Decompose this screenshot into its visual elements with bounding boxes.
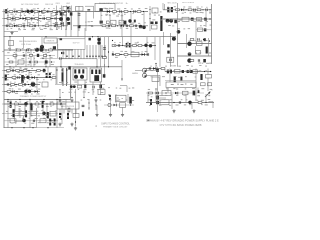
resistor R25 [188,9,192,11]
block degauss [95,3,115,11]
junction [45,66,46,67]
capacitor C9 [55,17,57,20]
wire [209,101,214,103]
value labels [9,22,63,24]
junction [112,53,113,54]
resistor R9 [26,18,30,20]
junction [43,101,44,102]
wire [197,88,199,94]
value labels [177,28,190,29]
diode D9 [61,52,64,55]
value labels [11,115,54,116]
wire [100,12,102,26]
junction [59,97,60,98]
capacitor C837 [167,44,169,47]
capacitor C42 [49,73,51,78]
junction [20,70,21,71]
transistor Q1 [26,10,29,13]
value labels [151,95,157,98]
block d3 [10,119,16,123]
capacitor C853 [200,74,202,80]
block T801 primary [152,8,158,13]
wire [3,9,5,128]
value labels [9,101,64,102]
wire [36,127,64,129]
value labels [102,22,146,24]
capacitor C13 [54,25,56,28]
value labels [188,52,211,53]
wire [41,37,43,47]
wire [167,88,169,94]
capacitor C880 [129,97,132,104]
junction [88,102,89,103]
value labels [6,64,54,65]
capacitor C2 [14,10,16,13]
capacitor C48 [149,67,151,70]
junction [150,9,151,10]
junction [42,25,43,26]
wire arrow [205,92,210,97]
block reg2 [167,57,174,62]
diode D7 [121,25,124,28]
capacitor C30 [59,57,61,60]
resistor R28 [49,49,53,51]
value labels [85,25,93,27]
wire [4,66,123,68]
wire [104,37,106,67]
value labels [149,99,211,101]
wire [55,67,57,84]
wire [121,12,123,37]
wire [46,104,48,118]
wire [70,67,72,100]
block m2 [208,83,212,86]
capacitor C25 [193,9,195,12]
transistor Q28 [189,70,192,73]
block ml1 [18,60,24,64]
capacitor C816 [155,22,158,25]
resistor R45 [52,77,56,79]
wire [49,56,51,67]
capacitor C15 [55,22,58,24]
capacitor C24 [171,7,173,12]
block d5 [73,114,79,118]
capacitor C851 [182,70,184,73]
wire [75,89,77,126]
wire [100,37,102,67]
junction [19,99,20,100]
wire [4,91,40,93]
wire [178,55,212,57]
junction [11,127,12,128]
wire [93,6,95,18]
wire [165,71,212,73]
resistor R11 [46,18,50,20]
wire [61,67,63,84]
block b3 [120,103,126,108]
value labels [147,95,210,96]
wire [4,49,73,51]
transistor Q17 [172,37,176,41]
wire [42,108,44,116]
capacitor C3 [47,10,49,13]
diode D13 [35,90,38,93]
capacitor C56 [25,110,27,117]
diode D3 [23,17,26,20]
wire [100,82,102,95]
wire [146,68,165,70]
wire [155,63,157,70]
wire [88,100,90,110]
wire [85,12,87,32]
capacitor C854 [174,76,176,82]
junction [30,49,31,50]
junction [204,71,205,72]
wire [169,69,171,83]
wire [149,6,151,31]
junction [50,25,51,26]
wire [4,55,55,57]
wire [89,38,91,41]
value labels [198,63,211,64]
resistor R48 [7,91,11,93]
block d4 [40,119,46,123]
block bl2 [15,116,24,121]
wire [106,21,109,24]
junction pins [66,56,105,57]
wire [78,6,80,31]
resistor R29 [13,55,17,57]
capacitor C881 [156,96,159,100]
resistor R40 [7,70,11,72]
resistor R17 [63,13,66,15]
resistor R51 [198,102,202,104]
svg-text:COIL 3.9uH: COIL 3.9uH [21,44,32,46]
capacitor C839 [204,38,206,41]
junction [210,71,211,72]
resistor R3 [34,11,38,13]
transistor Q15 [144,44,147,47]
transistor Q8 [169,19,173,23]
wire [18,108,20,116]
wire [36,108,38,128]
svg-text:S801 2A: S801 2A [45,3,53,6]
svg-text:AC 220-240V 50HZ: AC 220-240V 50HZ [21,3,39,6]
resistor R52 [15,103,19,105]
wire [191,103,193,110]
wire [56,100,58,128]
resistor R14 [29,25,33,27]
junction [92,36,93,37]
block r51 [206,75,212,79]
wire pins [60,109,76,114]
capacitor C27 [26,49,28,52]
wire [62,12,64,26]
junction [7,99,8,100]
diode D810 [100,21,103,24]
capacitor C820 [53,46,56,49]
resistor R57 [190,60,194,62]
value labels [167,6,207,7]
capacitor C45 [12,90,14,93]
junction [56,69,57,70]
diode D17 [175,92,178,95]
junction [97,36,98,37]
wire [104,64,106,78]
capacitor C55 [13,109,15,117]
wire [122,108,124,114]
value labels [59,81,101,83]
wire [57,44,59,58]
wire [56,6,58,31]
junction [66,69,67,70]
junction [45,49,46,50]
value labels [7,57,52,59]
capacitor C50 [179,101,181,104]
value labels [115,56,136,57]
svg-text:L802: L802 [66,3,70,5]
wire [71,6,73,31]
wire [4,11,73,13]
resistor R24 [176,9,180,11]
capacitor C14 [55,12,58,14]
transistor Q33 [128,19,131,22]
capacitor C32 [118,44,120,47]
wire [24,108,26,116]
junction [27,25,28,26]
capacitor C872 [82,112,84,117]
wire [19,108,21,118]
resistor R21 [102,25,106,27]
capacitor C847 [43,69,46,72]
wire [135,69,142,71]
svg-text:REMOTE: REMOTE [47,40,55,42]
capacitor C19 [133,10,135,13]
diode D11 [22,76,25,79]
resistor R36 [133,45,137,47]
capacitor C58 [49,119,51,126]
capacitor C33 [126,43,128,47]
capacitor C12 [34,25,36,28]
block v2 [162,91,171,96]
wire [130,12,132,37]
resistor R18 [113,11,117,13]
junction [122,45,123,46]
svg-text:SEC 140V: SEC 140V [167,3,177,5]
wire [65,12,67,37]
capacitor C836 [134,20,136,23]
wire [36,78,38,92]
winding blobs [74,75,84,79]
capacitor C855 [180,77,182,81]
wire [78,25,81,28]
block dr2 [119,20,124,25]
value labels [154,14,160,17]
svg-text:TDA 4605: TDA 4605 [74,63,84,66]
capacitor C39 [5,75,7,81]
junction [15,84,16,85]
junction [108,66,109,67]
capacitor C838 [167,51,169,54]
value labels [9,67,33,68]
wire [207,78,209,91]
value labels [9,88,41,89]
transistor Q24 [28,90,31,93]
wire [171,94,173,109]
value labels [106,28,142,29]
value labels [167,21,208,23]
resistor R38 [116,54,120,56]
capacitor C46 [92,86,94,89]
svg-text:TP 12: TP 12 [206,95,211,97]
wire [126,86,128,92]
wire [195,22,197,44]
transistor Q22 [31,82,36,87]
diode D12 [32,76,35,79]
capacitor C59 [54,119,56,126]
value labels [101,15,110,16]
junction [150,14,151,15]
junction [63,25,64,26]
junction [121,78,122,79]
resistor R19 [124,11,128,13]
block bl1 [15,105,25,112]
junction [112,40,113,41]
capacitor C34 [129,43,131,47]
capacitor C870 [30,104,32,111]
wire [162,3,164,10]
wire [195,69,197,101]
value labels [188,40,207,41]
ground [74,127,77,131]
junction [50,11,51,12]
junction [51,18,52,19]
capacitor C833 [204,28,207,31]
value labels [100,99,134,100]
ground [58,123,61,127]
ground [172,109,175,113]
wire [29,100,31,128]
diode D14 [114,104,117,107]
resistor R41 [16,70,20,72]
capacitor C28 [23,54,25,57]
wire [70,67,72,98]
wire [115,94,117,103]
capacitor C21 [126,25,128,28]
value labels [7,74,54,75]
block v4 [183,91,189,95]
junction [43,99,44,100]
resistor R37 [138,45,142,47]
transistor Q11 [35,48,39,52]
junction [155,63,156,64]
junction [56,99,57,100]
capacitor C26 [205,9,207,12]
svg-text:SCP 19: SCP 19 [73,42,81,44]
capacitor C47 [109,95,111,101]
wire [159,75,161,86]
resistor R54 [50,103,54,105]
value labels [10,82,41,83]
resistor R6 [61,11,65,13]
resistor R27 [17,49,21,51]
junction [75,121,76,122]
svg-text:PRIMARY SIDE CIRCUIT: PRIMARY SIDE CIRCUIT [103,125,128,128]
wire [20,12,22,19]
junction [29,99,30,100]
resistor R22 [112,25,116,27]
value labels [114,42,154,44]
capacitor C29 [29,61,31,64]
block filter F2 [76,7,84,12]
wire [55,84,105,86]
capacitor C815 [151,22,154,25]
wire [4,18,60,20]
junction [185,9,186,10]
value labels [154,11,211,13]
capacitor C861 [198,90,200,93]
diode D15 [153,67,156,70]
block dr1 [111,20,117,25]
wire [4,120,58,122]
wire [23,37,25,48]
block snub [42,82,48,87]
wire [163,32,165,45]
transistor Q18 [187,42,191,46]
transformer T1 sec B [90,68,102,82]
capacitor C842 [84,85,86,89]
wire [154,37,156,60]
svg-text:DRAWN BY 4-97 REV GRUNDIG POWE: DRAWN BY 4-97 REV GRUNDIG POWER SUPPLY P… [146,119,219,123]
transistor Q32 [22,119,26,123]
junction [130,104,131,105]
value labels [10,13,52,15]
wire [108,37,110,67]
resistor R15 [45,25,49,27]
junction [95,104,96,105]
label mark [147,120,149,122]
junction [51,61,52,62]
junction [209,9,210,10]
op-amp U1 control block [58,39,86,50]
wire [146,92,204,94]
wire [15,50,17,67]
diode D2 [39,10,42,13]
junction [117,25,118,26]
transistor Q19 [188,52,192,56]
capacitor C821 [37,54,39,57]
value labels [6,79,52,80]
junction [120,54,121,55]
transistor Q5 [139,25,143,29]
wire [121,60,123,81]
transistor Q7 [166,19,170,23]
resistor R50 [149,92,153,94]
value labels [151,76,197,78]
ground [94,99,97,103]
wire [65,100,67,111]
junction [9,66,10,67]
capacitor C31 [103,47,106,49]
wire [20,67,22,71]
resistor R46 [11,84,15,86]
block rm2 [196,51,201,55]
wire [4,103,66,105]
wire [61,6,63,31]
junction [150,18,151,19]
wire [163,18,212,20]
wire [68,66,71,69]
